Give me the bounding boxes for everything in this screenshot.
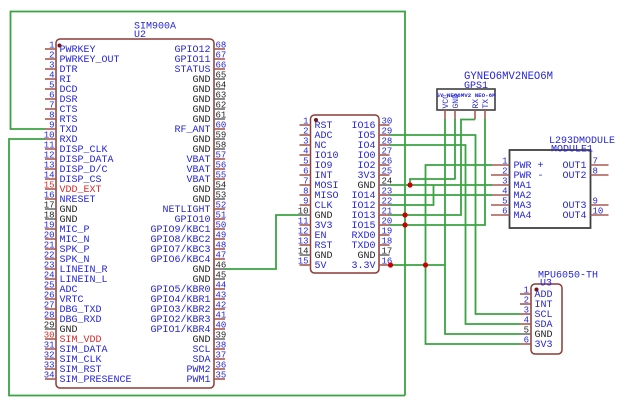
svg-text:2: 2 — [303, 127, 308, 137]
svg-text:30: 30 — [382, 117, 393, 127]
U1 pin 11 3V3 (left) — [300, 224, 311, 226]
U1 pin 15 5V (left) — [300, 264, 311, 266]
U1 pin 19 RXD0 (right) — [379, 234, 390, 236]
junction IO13 row at x=405 — [402, 212, 407, 217]
U2 pin 28 DBG_RXD (left) — [45, 318, 56, 320]
U2 pin 43 GPIO4/KBR1 (right) — [214, 298, 225, 300]
U2 pin 18 GND (left) — [45, 218, 56, 220]
U2 pin 22 SPK_N (left) — [45, 258, 56, 260]
svg-text:2: 2 — [49, 51, 54, 61]
U2 pin 8 RTS (left) — [45, 118, 56, 120]
wire net IO13: U1 pin21 to GPS RX — [390, 120, 476, 216]
U1 pin 26 IO2 (right) — [379, 164, 390, 166]
U2 pin 10 RXD (left) — [45, 138, 56, 140]
svg-text:15: 15 — [298, 257, 309, 267]
U2 pin 59 GND (right) — [214, 138, 225, 140]
U1 pin 18 TXD0 (right) — [379, 244, 390, 246]
svg-text:3: 3 — [524, 306, 529, 316]
U2 pin 14 DISP_CS (left) — [45, 178, 56, 180]
svg-text:65: 65 — [216, 71, 227, 81]
svg-text:41: 41 — [216, 311, 227, 321]
svg-text:25: 25 — [44, 281, 55, 291]
U2 pin 35 PWM1 (right) — [214, 378, 225, 380]
U2 pin 36 PWM2 (right) — [214, 368, 225, 370]
svg-text:57: 57 — [216, 151, 227, 161]
svg-text:56: 56 — [216, 161, 227, 171]
U2 pin 46 GND (right) — [214, 268, 225, 270]
U2 pin 56 VBAT (right) — [214, 168, 225, 170]
wire net GND: GPS1 GND pin drop — [454, 119, 456, 180]
svg-text:4: 4 — [524, 316, 529, 326]
U2 pin 5 DCD (left) — [45, 88, 56, 90]
svg-text:18: 18 — [44, 211, 55, 221]
svg-text:22: 22 — [44, 251, 55, 261]
U2 pin 52 NETLIGHT (right) — [214, 208, 225, 210]
svg-text:23: 23 — [44, 261, 55, 271]
svg-text:8: 8 — [593, 167, 598, 177]
U3 pin 5 GND (left) — [520, 333, 531, 335]
U3 pin 3 SCL (left) — [520, 313, 531, 315]
U2 pin 19 MIC_P (left) — [45, 228, 56, 230]
U2 pin 20 MIC_N (left) — [45, 238, 56, 240]
U1 pin 25 3V3 (right) — [379, 174, 390, 176]
U1 pin 1 RST (left) — [300, 124, 311, 126]
U2 pin 21 SPK_P (left) — [45, 248, 56, 250]
svg-text:32: 32 — [44, 351, 55, 361]
U3 pin 6 3V3 (left) — [520, 343, 531, 345]
wire net 3.3V: riser to MODULE1 PWR+ and down to U3 3V3 — [426, 165, 521, 344]
svg-text:4: 4 — [502, 187, 507, 197]
GPS1 pin GND (bottom) — [454, 110, 456, 120]
svg-text:19: 19 — [382, 227, 393, 237]
svg-text:GPS1: GPS1 — [464, 81, 488, 92]
svg-text:6: 6 — [303, 167, 308, 177]
svg-text:40: 40 — [216, 321, 227, 331]
svg-text:12: 12 — [44, 151, 55, 161]
U1 pin 16 3.3V (right) — [379, 264, 390, 266]
svg-text:13: 13 — [298, 237, 309, 247]
svg-text:3V3: 3V3 — [535, 340, 553, 351]
U1 pin 10 GND (left) — [300, 214, 311, 216]
svg-text:11: 11 — [298, 217, 309, 227]
svg-text:46: 46 — [216, 261, 227, 271]
svg-text:5: 5 — [49, 81, 54, 91]
svg-text:28: 28 — [44, 311, 55, 321]
svg-text:2: 2 — [524, 296, 529, 306]
svg-text:6: 6 — [524, 336, 529, 346]
U2 pin 66 STATUS (right) — [214, 68, 225, 70]
U1 pin 22 IO12 (right) — [379, 204, 390, 206]
svg-text:10: 10 — [593, 207, 604, 217]
U2 pin 39 GND (right) — [214, 338, 225, 340]
U2 pin 67 GPIO11 (right) — [214, 58, 225, 60]
U2 pin 17 GND (left) — [45, 208, 56, 210]
U1 pin 17 GND (right) — [379, 254, 390, 256]
U1 pin 24 GND (right) — [379, 184, 390, 186]
svg-text:52: 52 — [216, 201, 227, 211]
U2 pin 40 GPIO1/KBR4 (right) — [214, 328, 225, 330]
svg-text:10: 10 — [44, 131, 55, 141]
svg-text:49: 49 — [216, 231, 227, 241]
U2 pin 65 GND (right) — [214, 78, 225, 80]
U2 pin 12 DISP_DATA (left) — [45, 158, 56, 160]
U2 pin 29 GND (left) — [45, 328, 56, 330]
U2 pin 51 GPIO10 (right) — [214, 218, 225, 220]
U3 pin 4 SDA (left) — [520, 323, 531, 325]
GPS1 GY-NEO6MV2 module body — [437, 89, 495, 110]
svg-text:12: 12 — [298, 227, 309, 237]
U1 pin 23 IO14 (right) — [379, 194, 390, 196]
svg-text:36: 36 — [216, 361, 227, 371]
U1 pin 21 IO13 (right) — [379, 214, 390, 216]
IC U1 MCU module body — [311, 115, 380, 273]
svg-text:1: 1 — [49, 41, 54, 51]
svg-text:9: 9 — [593, 197, 598, 207]
U2 pin 16 NRESET (left) — [45, 198, 56, 200]
svg-text:3: 3 — [49, 61, 54, 71]
U2 pin 7 CTS (left) — [45, 108, 56, 110]
svg-text:SIM_PRESENCE: SIM_PRESENCE — [60, 375, 132, 386]
svg-text:MA4: MA4 — [514, 211, 532, 222]
U2 pin 41 GPIO2/KBR3 (right) — [214, 318, 225, 320]
svg-text:9: 9 — [49, 121, 54, 131]
U2 pin 64 GND (right) — [214, 88, 225, 90]
U1 pin 20 IO15 (right) — [379, 224, 390, 226]
wire net RXD: U2 pin10 loop under bottom to vertical bus x=405 — [9, 139, 405, 396]
svg-text:44: 44 — [216, 281, 227, 291]
svg-text:OUT4: OUT4 — [562, 211, 586, 222]
svg-text:3: 3 — [502, 177, 507, 187]
U3 pin 1 ADD (left) — [520, 293, 531, 295]
U2 pin 26 VRTC (left) — [45, 298, 56, 300]
svg-text:GND: GND — [452, 94, 461, 109]
U3 pin 2 INT (left) — [520, 303, 531, 305]
junction 3.3V rail x=425 — [423, 262, 428, 267]
svg-text:17: 17 — [44, 201, 55, 211]
svg-text:7: 7 — [593, 157, 598, 167]
svg-text:9: 9 — [303, 197, 308, 207]
IC U3 MPU6050-TH body — [531, 284, 562, 354]
MODULE1 pin 8 OUT2 (right) — [591, 174, 609, 176]
svg-text:64: 64 — [216, 81, 227, 91]
U1 pin 2 ADC (left) — [300, 134, 311, 136]
MODULE1 pin 6 MA4 (left) — [491, 214, 510, 216]
svg-text:3: 3 — [303, 137, 308, 147]
U1 pin 13 RST (left) — [300, 244, 311, 246]
U1 pin 3 NC (left) — [300, 144, 311, 146]
U2 pin 31 SIM_DATA (left) — [45, 348, 56, 350]
svg-text:19: 19 — [44, 221, 55, 231]
junction IO15 row at x=405 — [402, 222, 407, 227]
wire net TXD: U2 pin9 loop over top to vertical bus x=405 — [11, 12, 406, 396]
U2 pin 24 LINEIN_L (left) — [45, 278, 56, 280]
U2 pin 33 SIM_RST (left) — [45, 368, 56, 370]
svg-text:59: 59 — [216, 131, 227, 141]
svg-text:11: 11 — [44, 141, 55, 151]
svg-text:VCC: VCC — [442, 94, 451, 109]
svg-text:26: 26 — [44, 291, 55, 301]
MODULE1 pin 4 MA2 (left) — [491, 194, 510, 196]
U2 pin 60 RF_ANT (right) — [214, 128, 225, 130]
wire net GND: jog from junction to GPS GND — [410, 179, 455, 185]
svg-text:4: 4 — [303, 147, 308, 157]
U1 pin 4 IO10 (left) — [300, 154, 311, 156]
U2 pin 68 GPIO12 (right) — [214, 48, 225, 50]
svg-text:53: 53 — [216, 191, 227, 201]
svg-text:7: 7 — [303, 177, 308, 187]
svg-text:6: 6 — [49, 91, 54, 101]
U2 pin 6 DSR (left) — [45, 98, 56, 100]
U2 pin 3 DTR (left) — [45, 68, 56, 70]
svg-text:66: 66 — [216, 61, 227, 71]
U1 pin 29 IO5 (right) — [379, 134, 390, 136]
U2 pin 13 DISP_D/C (left) — [45, 168, 56, 170]
wire net IO12: U1 pin22 stub wire — [390, 185, 434, 205]
svg-text:8: 8 — [303, 187, 308, 197]
U2 pin 54 GND (right) — [214, 188, 225, 190]
wire net GND: U2 pin46 to U1 pin10 GND — [225, 215, 300, 269]
svg-text:29: 29 — [44, 321, 55, 331]
svg-text:31: 31 — [44, 341, 55, 351]
svg-text:14: 14 — [44, 171, 55, 181]
svg-text:54: 54 — [216, 181, 227, 191]
U2 pin 61 GND (right) — [214, 118, 225, 120]
MODULE1 pin 9 OUT3 (right) — [591, 204, 609, 206]
U2 pin 1 PWRKEY (left) — [45, 48, 56, 50]
U2 pin 34 SIM_PRESENCE (left) — [45, 378, 56, 380]
GPS1 pin VCC (bottom) — [444, 110, 446, 120]
svg-text:5: 5 — [502, 197, 507, 207]
U2 pin 63 GND (right) — [214, 98, 225, 100]
svg-text:50: 50 — [216, 221, 227, 231]
svg-text:13: 13 — [44, 161, 55, 171]
U2 pin 25 ADC (left) — [45, 288, 56, 290]
GPS1 pin RX (bottom) — [474, 110, 476, 120]
MODULE1 pin 7 OUT1 (right) — [591, 164, 609, 166]
svg-text:15: 15 — [44, 181, 55, 191]
U2 pin 9 TXD (left) — [45, 128, 56, 130]
MODULE1 pin 5 MA3 (left) — [491, 204, 510, 206]
svg-text:58: 58 — [216, 141, 227, 151]
svg-text:51: 51 — [216, 211, 227, 221]
svg-text:5: 5 — [303, 157, 308, 167]
svg-text:18: 18 — [382, 237, 393, 247]
svg-text:21: 21 — [44, 241, 55, 251]
svg-text:34: 34 — [44, 371, 55, 381]
svg-text:TX: TX — [482, 99, 491, 109]
svg-text:5V: 5V — [315, 261, 327, 272]
svg-text:25: 25 — [382, 167, 393, 177]
svg-text:55: 55 — [216, 171, 227, 181]
U1 pin 6 INT (left) — [300, 174, 311, 176]
svg-text:16: 16 — [44, 191, 55, 201]
svg-text:26: 26 — [382, 157, 393, 167]
svg-text:3.3V: 3.3V — [351, 261, 375, 272]
svg-text:47: 47 — [216, 251, 227, 261]
svg-text:60: 60 — [216, 121, 227, 131]
svg-text:37: 37 — [216, 351, 227, 361]
svg-text:67: 67 — [216, 51, 227, 61]
svg-text:27: 27 — [382, 147, 393, 157]
U2 pin 38 SCL (right) — [214, 348, 225, 350]
U2 pin 2 PWRKEY_OUT (left) — [45, 58, 56, 60]
MODULE1 pin 3 MA1 (left) — [491, 184, 510, 186]
svg-text:1: 1 — [524, 286, 529, 296]
svg-text:8: 8 — [49, 111, 54, 121]
svg-text:33: 33 — [44, 361, 55, 371]
svg-text:48: 48 — [216, 241, 227, 251]
svg-text:42: 42 — [216, 301, 227, 311]
svg-text:4: 4 — [49, 71, 54, 81]
GPS1 pin TX (bottom) — [484, 110, 486, 120]
U2 pin 62 GND (right) — [214, 108, 225, 110]
svg-text:6: 6 — [502, 207, 507, 217]
U2 pin 32 SIM_CLK (left) — [45, 358, 56, 360]
wire net IO15: U1 pin20 to GPS TX — [390, 119, 486, 225]
U1 pin 5 IO9 (left) — [300, 164, 311, 166]
U2 pin 30 SIM_VDD (left) — [45, 338, 56, 340]
U2 pin 23 LINEIN_R (left) — [45, 268, 56, 270]
svg-text:14: 14 — [298, 247, 309, 257]
U2 pin 45 GND (right) — [214, 278, 225, 280]
svg-text:U2: U2 — [134, 30, 146, 41]
U2 pin 47 GPIO6/KBC4 (right) — [214, 258, 225, 260]
U1 pin 7 MOSI (left) — [300, 184, 311, 186]
U2 pin 27 DBG_TXD (left) — [45, 308, 56, 310]
MODULE1 L293D module body — [510, 150, 591, 228]
U2 pin 57 VBAT (right) — [214, 158, 225, 160]
svg-text:38: 38 — [216, 341, 227, 351]
U1 pin 12 EN (left) — [300, 234, 311, 236]
svg-text:PWM1: PWM1 — [186, 375, 210, 386]
svg-text:5: 5 — [524, 326, 529, 336]
U3 pin-1 marker dot — [535, 288, 539, 292]
MODULE1 pin 10 OUT4 (right) — [591, 214, 609, 216]
MODULE1 pin 2 PWR - (left) — [491, 174, 510, 176]
U2 pin 37 SDA (right) — [214, 358, 225, 360]
wire net 3.3V: GPS VCC drop down to U3 GND row — [445, 119, 520, 334]
MODULE1 pin 1 PWR + (left) — [491, 164, 510, 166]
U2 pin 48 GPIO7/KBC3 (right) — [214, 248, 225, 250]
junction GND row at x=410 — [407, 182, 412, 187]
svg-text:68: 68 — [216, 41, 227, 51]
svg-text:45: 45 — [216, 271, 227, 281]
svg-text:61: 61 — [216, 111, 227, 121]
wire net IO14: U1 pin23 to MODULE1 MA2 — [390, 194, 493, 196]
svg-text:7: 7 — [49, 101, 54, 111]
svg-text:39: 39 — [216, 331, 227, 341]
svg-text:27: 27 — [44, 301, 55, 311]
wire net 3.3V: U1 pin16 rail — [390, 264, 446, 266]
U1 pin 28 IO4 (right) — [379, 144, 390, 146]
U2 pin 55 VBAT (right) — [214, 178, 225, 180]
U2 pin 44 GPIO5/KBR0 (right) — [214, 288, 225, 290]
svg-text:62: 62 — [216, 101, 227, 111]
U2 pin 49 GPIO8/KBC2 (right) — [214, 238, 225, 240]
U1 pin 8 MISO (left) — [300, 194, 311, 196]
U2 pin 42 GPIO3/KBR2 (right) — [214, 308, 225, 310]
U1 pin 9 CLK (left) — [300, 204, 311, 206]
wire net GND: U1 pin24 to MODULE1 MA1 — [390, 184, 493, 186]
U2 pin 15 VDD_EXT (left) — [45, 188, 56, 190]
U2 pin 4 RI (left) — [45, 78, 56, 80]
U2 pin-1 marker dot — [58, 44, 62, 48]
svg-text:43: 43 — [216, 291, 227, 301]
U1 pin 27 IO0 (right) — [379, 154, 390, 156]
svg-text:1: 1 — [502, 157, 507, 167]
IC U2 SIM900A body — [56, 39, 214, 388]
svg-text:24: 24 — [44, 271, 55, 281]
svg-text:63: 63 — [216, 91, 227, 101]
U2 pin 53 GND (right) — [214, 198, 225, 200]
U1 pin-1 marker dot — [314, 118, 318, 122]
U1 pin 30 IO16 (right) — [379, 124, 390, 126]
U2 pin 50 GPIO9/KBC1 (right) — [214, 228, 225, 230]
svg-text:20: 20 — [44, 231, 55, 241]
svg-text:MODULE1: MODULE1 — [551, 145, 593, 156]
svg-text:17: 17 — [382, 247, 393, 257]
U2 pin 58 GND (right) — [214, 148, 225, 150]
svg-text:U3: U3 — [540, 279, 552, 290]
junction at U1 pin16 3.3V — [388, 262, 393, 267]
svg-text:1: 1 — [303, 117, 308, 127]
wire net IO5/SCL: U1 pin29 to U3 SCL — [390, 135, 521, 314]
wire net IO4/SDA: U1 pin28 to U3 SDA — [390, 145, 521, 324]
svg-text:2: 2 — [502, 167, 507, 177]
svg-text:RX: RX — [472, 99, 481, 109]
U2 pin 11 DISP_CLK (left) — [45, 148, 56, 150]
svg-text:30: 30 — [44, 331, 55, 341]
U1 pin 14 GND (left) — [300, 254, 311, 256]
svg-text:OUT2: OUT2 — [562, 171, 586, 182]
svg-text:35: 35 — [216, 371, 227, 381]
